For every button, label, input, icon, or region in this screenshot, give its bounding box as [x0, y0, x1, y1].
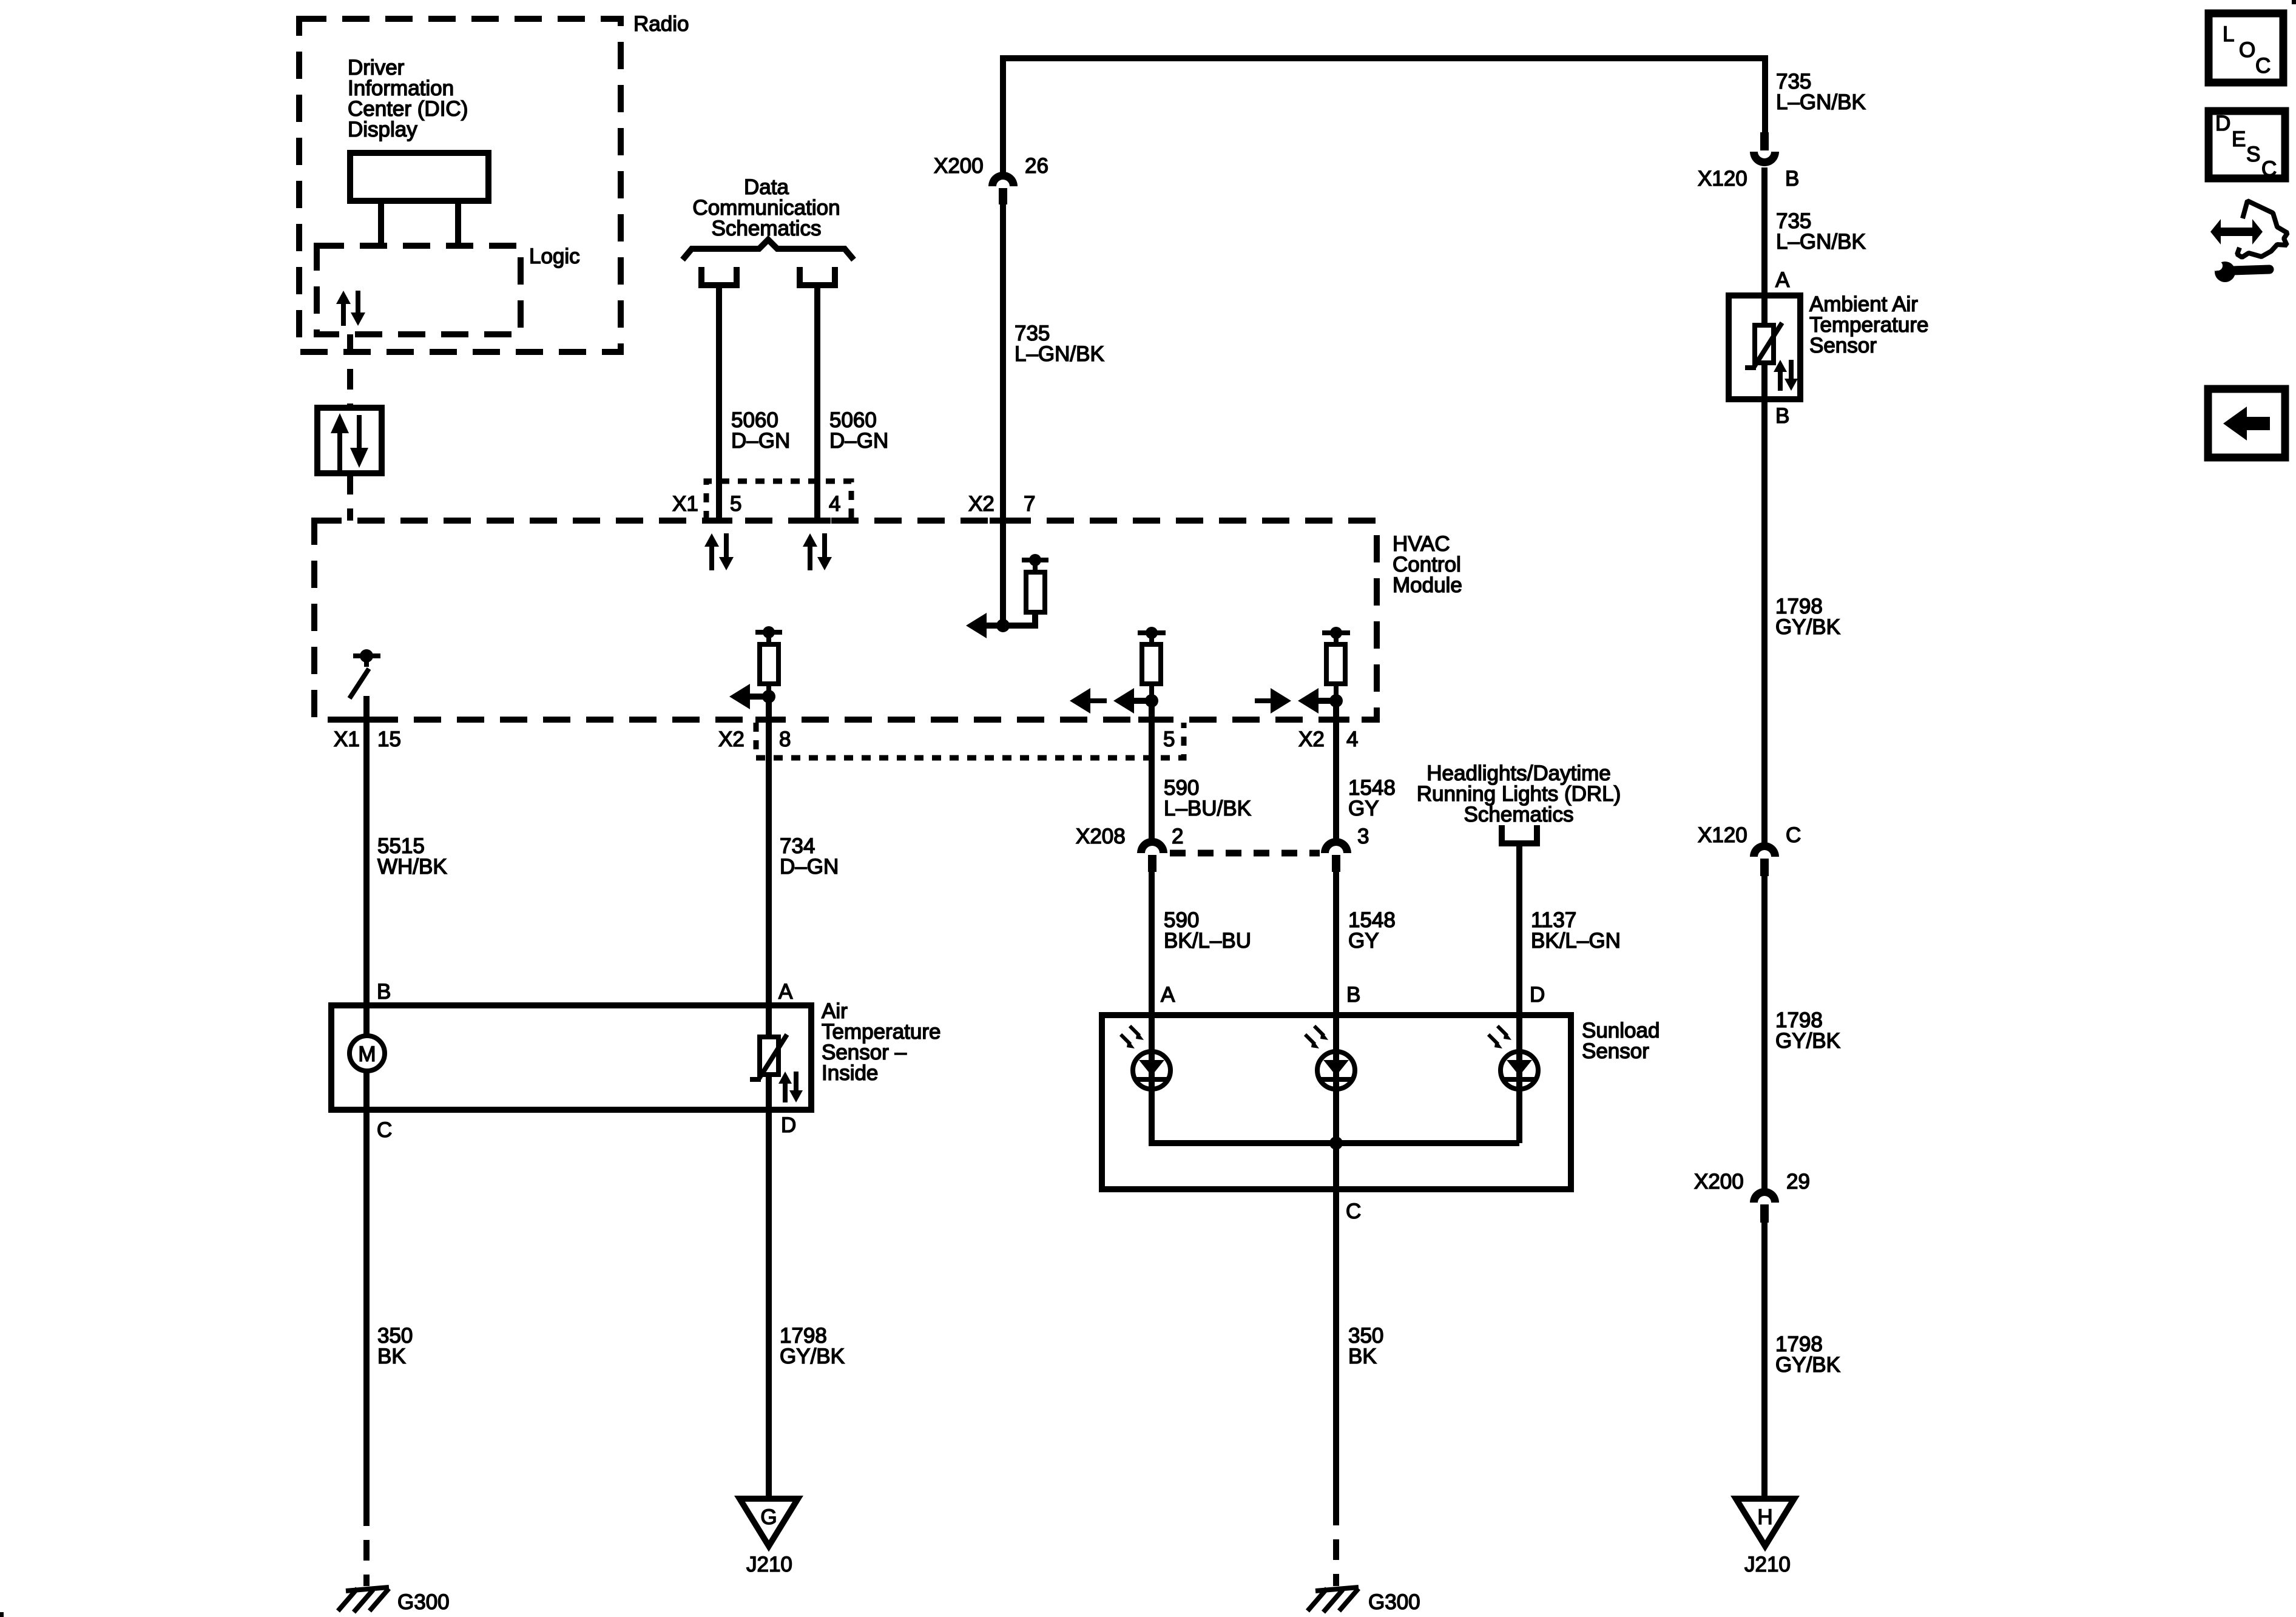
arrow left free (590) [1070, 688, 1107, 714]
LOC icon box [2209, 13, 2283, 83]
connector X200 pin 26 [988, 172, 1018, 204]
svg-text:Logic: Logic [529, 245, 580, 268]
wire junction to arrow [750, 694, 769, 700]
svg-text:C: C [2255, 54, 2271, 78]
svg-text:GY/BK: GY/BK [1775, 615, 1840, 639]
Air Temperature Sensor - Inside box [331, 1005, 811, 1110]
svg-text:L–BU/BK: L–BU/BK [1164, 797, 1251, 820]
wire X2-8 down [766, 697, 772, 1005]
arrow left (X2-8 output) [729, 684, 750, 709]
tool icon (connector end view with wrench) [2209, 201, 2288, 282]
svg-text:X208: X208 [1076, 825, 1126, 848]
X208 connector dashed link [1170, 850, 1320, 857]
svg-text:B: B [1775, 404, 1789, 428]
svg-text:S: S [2246, 143, 2260, 166]
DESC icon box [2209, 111, 2285, 181]
off-page connector left (data wire 1) [701, 267, 737, 285]
svg-text:WH/BK: WH/BK [377, 855, 447, 879]
svg-text:A: A [1161, 983, 1175, 1007]
svg-text:D–GN: D–GN [731, 429, 790, 453]
Logic dashed box [317, 246, 521, 334]
wire dashed logic to arrow box [347, 334, 353, 405]
svg-text:Sensor: Sensor [1582, 1039, 1649, 1063]
svg-text:M: M [358, 1042, 376, 1066]
connector X120 pin B [1750, 132, 1779, 166]
pin tick X1-15 [353, 717, 380, 723]
wire dashed to G300 [1333, 1505, 1339, 1586]
wire 1548 down [1333, 701, 1339, 839]
svg-text:X1: X1 [672, 492, 698, 516]
wire junction to arrow [1134, 698, 1152, 704]
svg-text:GY: GY [1348, 797, 1379, 820]
svg-text:O: O [2239, 38, 2255, 62]
wire sunload internal bus [1149, 1140, 1519, 1146]
svg-text:C: C [1346, 1200, 1361, 1223]
resistor (HVAC internal, 590 branch) [1138, 627, 1166, 701]
brace [683, 240, 854, 260]
wire X200-29 to J210 H [1761, 1223, 1768, 1501]
off-page connector DRL [1502, 825, 1537, 843]
svg-text:D–GN: D–GN [829, 429, 888, 453]
arrow right free (1548 input) [1255, 688, 1291, 714]
svg-text:B: B [377, 980, 391, 1004]
svg-text:C: C [2261, 157, 2277, 181]
svg-text:X120: X120 [1698, 167, 1747, 191]
svg-text:G: G [760, 1505, 777, 1529]
svg-text:X2: X2 [718, 727, 745, 751]
wire 590 to sunload A [1149, 872, 1155, 1143]
svg-text:Sensor: Sensor [1809, 334, 1877, 357]
wire data 2 [814, 288, 820, 521]
wire X120-B to ambient sensor [1761, 167, 1768, 325]
switch (HVAC internal) [349, 649, 380, 698]
svg-text:GY: GY [1348, 929, 1379, 953]
svg-text:BK: BK [377, 1345, 406, 1368]
svg-text:Inside: Inside [822, 1061, 878, 1085]
wire data 1 [716, 288, 722, 521]
photodiode A [1121, 1026, 1170, 1089]
wire motor C inside box [363, 1069, 370, 1110]
Sunload Sensor box [1102, 1015, 1571, 1189]
thermistor (ambient) [1745, 323, 1782, 368]
wire sunload C down [1333, 1143, 1339, 1505]
bidirectional arrows below X1-5 [704, 533, 734, 570]
svg-text:15: 15 [377, 727, 401, 751]
wire X1-15 [363, 696, 370, 1005]
svg-text:5: 5 [730, 492, 741, 516]
Ambient Air Temperature Sensor box [1729, 295, 1800, 399]
svg-text:5: 5 [1163, 727, 1175, 751]
svg-text:J210: J210 [1744, 1553, 1791, 1576]
wire dashed to G300 (motor) [363, 1505, 370, 1586]
thermistor (air temp inside) [750, 1035, 787, 1079]
wire 734 inside box top [766, 1005, 772, 1037]
resistor (HVAC internal, X2-7 branch) [1022, 554, 1048, 612]
svg-text:BK/L–BU: BK/L–BU [1164, 929, 1251, 953]
serial data arrow box [317, 408, 382, 473]
wire 734/1798 down to J210 [766, 1110, 772, 1501]
connector X200 pin 29 [1750, 1188, 1779, 1223]
svg-text:G300: G300 [1368, 1590, 1420, 1614]
svg-text:D: D [781, 1113, 796, 1137]
wire 1548 to sunload B [1333, 872, 1339, 1143]
pin tick X2-4 [1323, 717, 1349, 723]
X1 pin dotted connector box (pins 5,4) [706, 481, 851, 520]
svg-text:L: L [2223, 22, 2234, 46]
off-page connector right (data wire 2) [800, 267, 835, 285]
svg-text:26: 26 [1025, 154, 1048, 178]
bidirectional arrows (ambient) [1774, 360, 1798, 391]
ground G300 (sunload) [1308, 1587, 1359, 1612]
wire junction X2-7 to resistor [987, 612, 1035, 626]
svg-text:L–GN/BK: L–GN/BK [1015, 342, 1104, 366]
svg-text:C: C [377, 1118, 392, 1142]
svg-text:X1: X1 [334, 727, 360, 751]
wire ambient inside bottom [1761, 363, 1768, 399]
svg-text:Schematics: Schematics [712, 217, 822, 240]
svg-text:GY/BK: GY/BK [1775, 1029, 1840, 1053]
svg-text:G300: G300 [397, 1590, 450, 1614]
wire 590 down [1149, 701, 1155, 839]
ground J210 G triangle [740, 1499, 798, 1546]
node 1548 junction [1329, 694, 1343, 707]
back arrow icon box [2208, 389, 2285, 457]
arrow left attached (1548) [1298, 688, 1319, 714]
svg-text:D: D [2215, 112, 2230, 135]
connector X208 pin 3 [1321, 838, 1351, 872]
X2 pin dotted connector box (pins 8,5) [756, 723, 1184, 758]
HVAC Control Module dashed box [314, 521, 1377, 720]
svg-text:L–GN/BK: L–GN/BK [1776, 90, 1866, 114]
ground G300 (motor) [338, 1587, 389, 1612]
bidirectional arrows (air temp inside) [778, 1072, 803, 1102]
svg-text:GY/BK: GY/BK [780, 1345, 845, 1368]
photodiode B [1305, 1026, 1355, 1089]
wire dashed arrow box to HVAC [347, 474, 353, 521]
DIC display box [350, 153, 488, 201]
bidirectional arrows below X1-4 [803, 533, 832, 570]
wire DIC leg left [378, 201, 384, 246]
svg-text:X2: X2 [968, 492, 994, 516]
pin tick X1-5 [706, 518, 732, 524]
connector X208 pin 2 [1137, 838, 1167, 872]
svg-text:Schematics: Schematics [1464, 803, 1574, 826]
scan artifact top-right [2292, 0, 2296, 4]
pin tick 590-5 [1138, 717, 1165, 723]
arrow left (X2-7 output) [966, 613, 987, 638]
node X2-7 junction [996, 619, 1010, 632]
node bus junction [1329, 1136, 1343, 1150]
svg-text:X200: X200 [934, 154, 984, 178]
svg-text:3: 3 [1357, 825, 1369, 848]
wire X2-7 vertical [1000, 204, 1006, 626]
motor M [349, 1036, 385, 1071]
pin tick X2-7 [990, 518, 1016, 524]
pin tick X1-4 [804, 518, 831, 524]
svg-text:C: C [1786, 823, 1801, 847]
logic bidirectional arrows [336, 291, 365, 326]
svg-text:E: E [2232, 127, 2246, 151]
node 590 junction [1145, 694, 1158, 707]
svg-text:A: A [1775, 268, 1790, 292]
node X2-8 junction [762, 690, 775, 703]
svg-text:H: H [1757, 1505, 1772, 1529]
wire DIC leg right [455, 201, 461, 246]
svg-text:D–GN: D–GN [780, 855, 839, 879]
svg-text:4: 4 [1346, 727, 1358, 751]
wire X120-C to X200-29 [1761, 876, 1768, 1189]
svg-text:A: A [778, 980, 793, 1004]
wire motor C down [363, 1110, 370, 1505]
wire 1137 [1516, 846, 1522, 1143]
resistor (HVAC internal, 1548 branch) [1322, 627, 1350, 701]
resistor (HVAC internal, X2-8 branch) [755, 626, 782, 697]
svg-text:D: D [1530, 983, 1545, 1007]
wire 734 inside box bottom [766, 1075, 772, 1110]
scan artifact bottom-left [0, 1612, 4, 1617]
pin tick X2-8 [755, 717, 782, 723]
svg-text:L–GN/BK: L–GN/BK [1776, 230, 1866, 254]
svg-text:8: 8 [779, 727, 791, 751]
svg-text:Module: Module [1393, 573, 1462, 597]
svg-text:GY/BK: GY/BK [1775, 1353, 1840, 1377]
wire junction to arrow [1319, 698, 1336, 704]
svg-text:Radio: Radio [633, 12, 689, 36]
svg-text:29: 29 [1786, 1170, 1810, 1193]
svg-text:X200: X200 [1694, 1170, 1744, 1193]
arrow left attached (590) [1113, 688, 1134, 714]
svg-text:J210: J210 [746, 1553, 792, 1576]
wire top horizontal [1003, 58, 1765, 172]
wire motor B inside box [363, 1005, 370, 1038]
svg-text:BK/L–GN: BK/L–GN [1531, 929, 1621, 953]
svg-text:2: 2 [1172, 825, 1183, 848]
ground J210 H triangle [1736, 1499, 1794, 1546]
svg-text:B: B [1346, 983, 1360, 1007]
connector X120 pin C [1750, 842, 1779, 876]
svg-text:7: 7 [1024, 492, 1035, 516]
svg-text:X120: X120 [1698, 823, 1747, 847]
svg-text:4: 4 [829, 492, 840, 516]
wire ambient to X120-C [1761, 399, 1768, 843]
svg-text:Display: Display [348, 118, 417, 141]
svg-text:X2: X2 [1298, 727, 1325, 751]
Radio module dashed box [299, 19, 621, 352]
svg-text:B: B [1785, 167, 1799, 191]
svg-text:BK: BK [1348, 1345, 1377, 1368]
photodiode D [1488, 1026, 1538, 1089]
